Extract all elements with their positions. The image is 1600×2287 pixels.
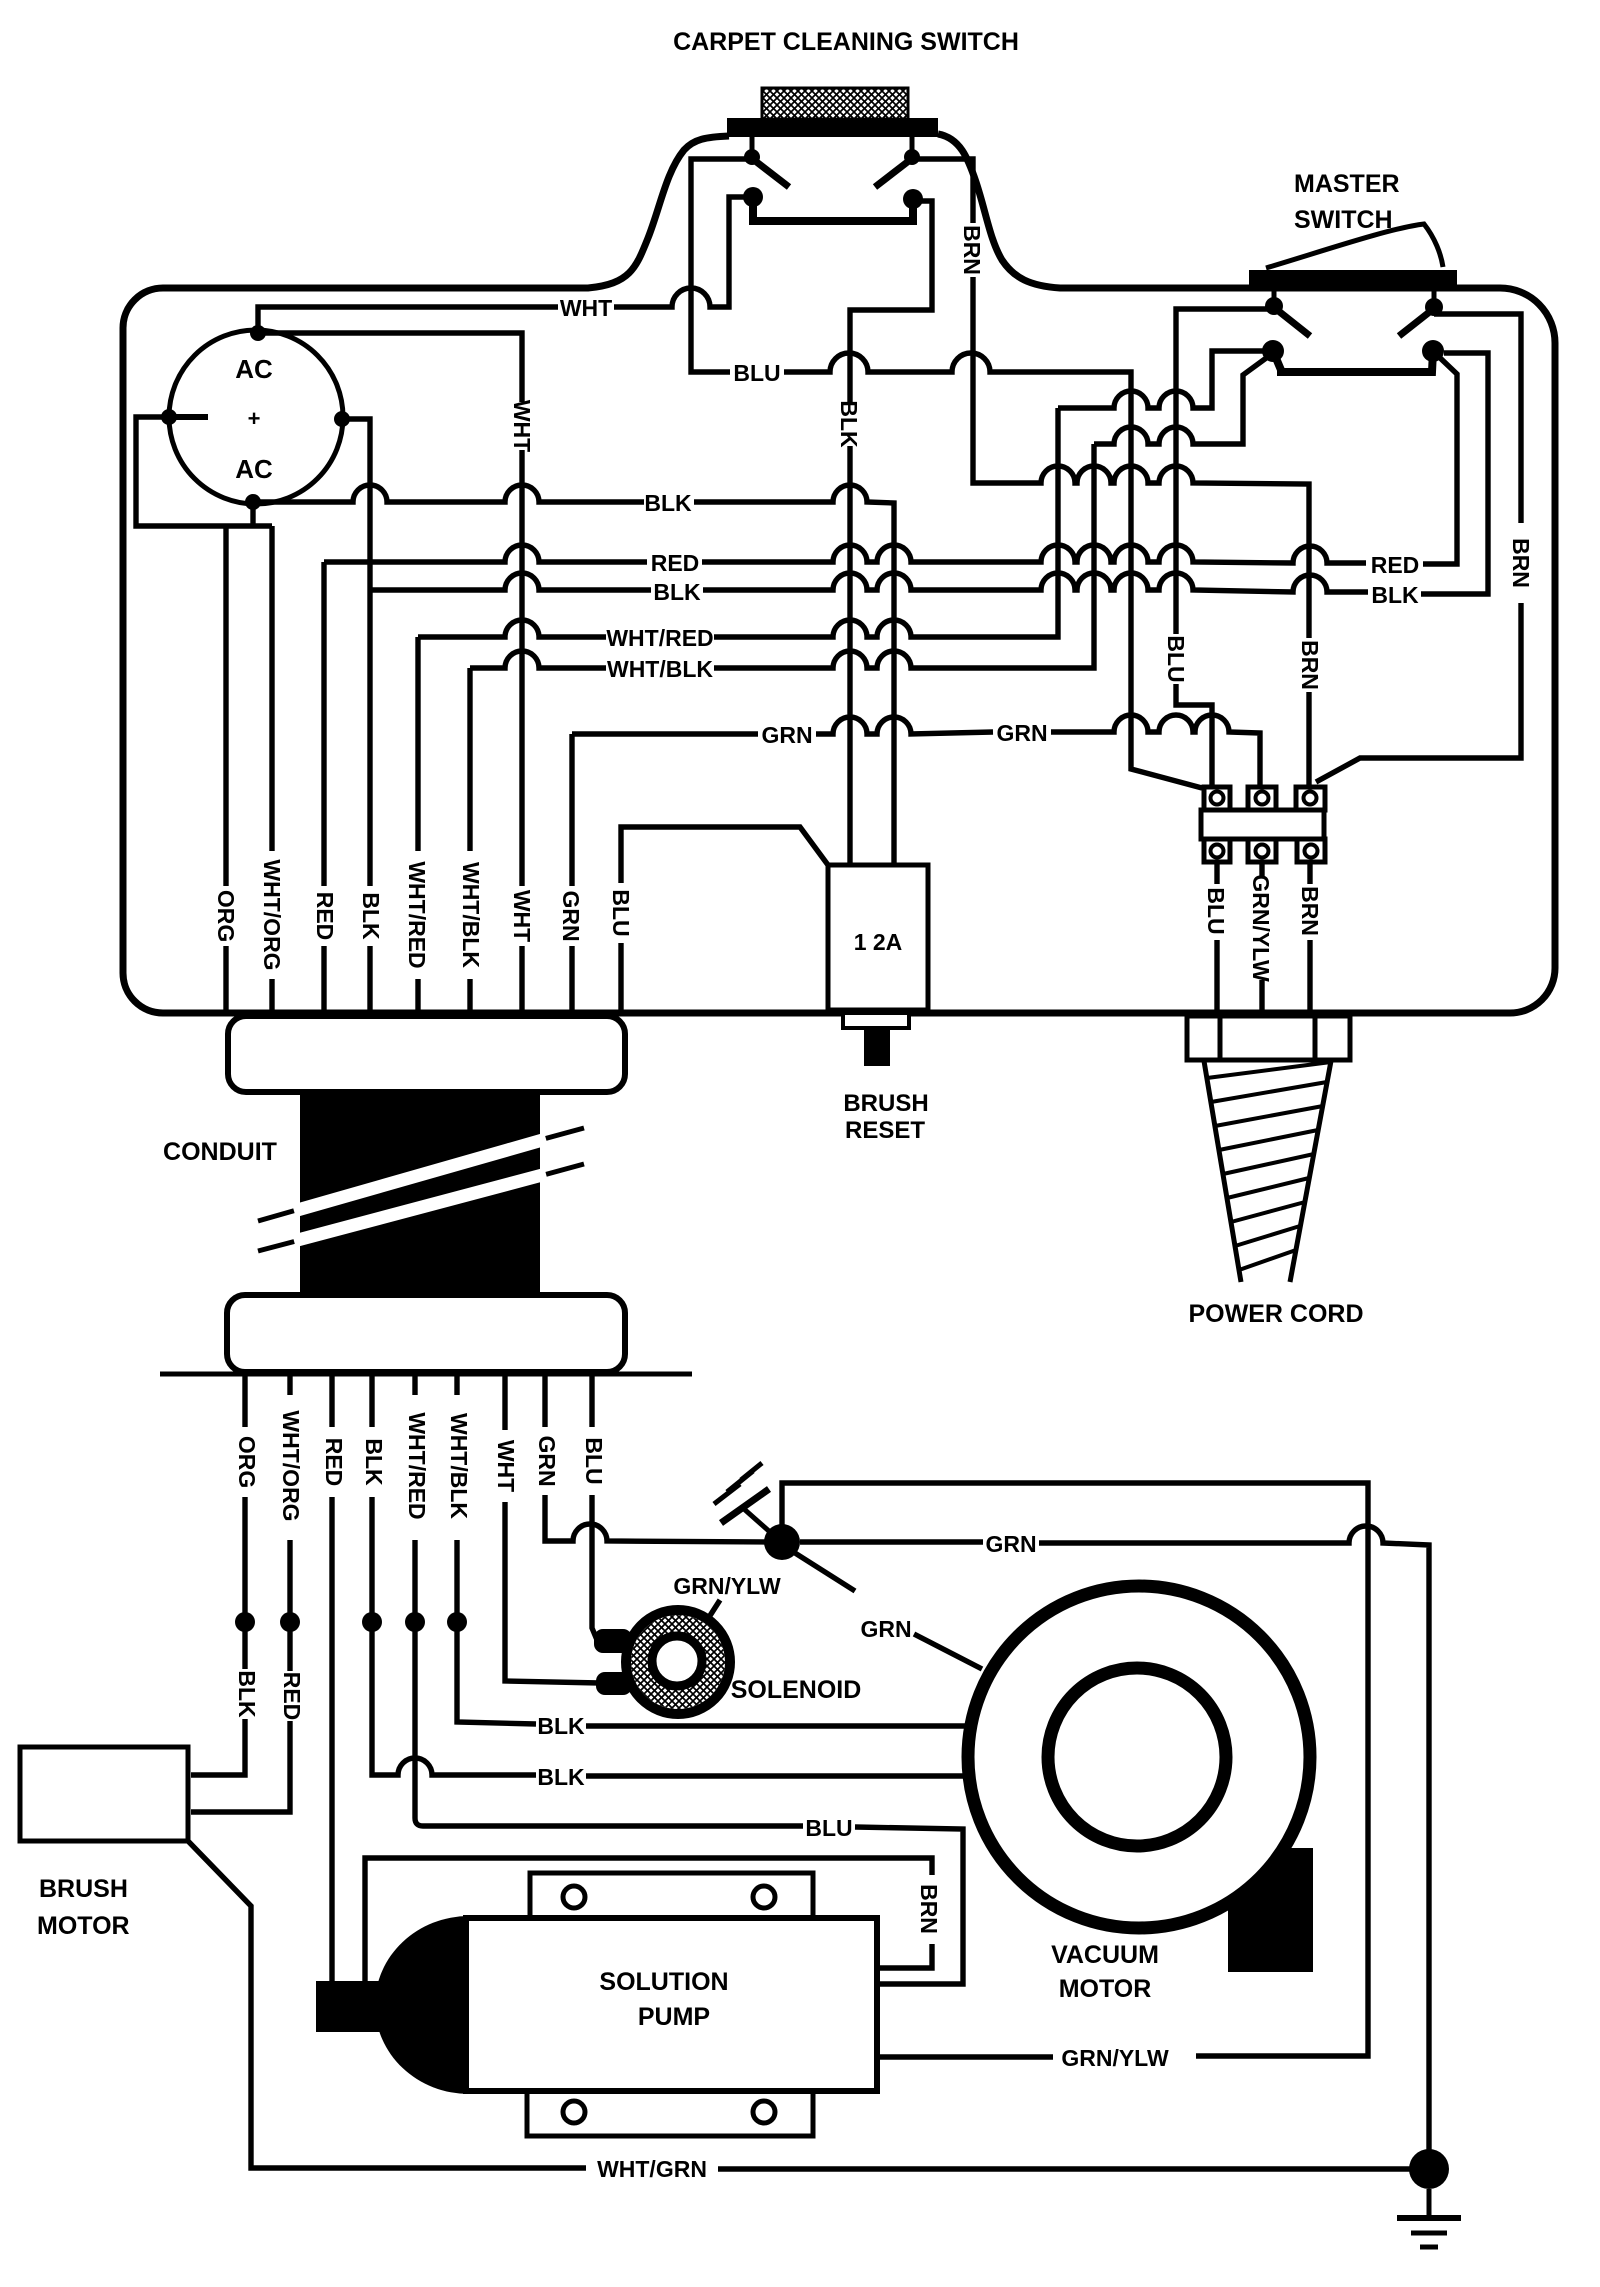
wire BRN from carpet switch top-right to terminal block (912, 159, 973, 223)
carpet switch contact dot top-left (744, 149, 760, 165)
svg-text:BLU: BLU (1203, 887, 1229, 934)
vacuum motor foot (1228, 1848, 1313, 1972)
base plate line (160, 1372, 692, 1377)
svg-text:WHT: WHT (509, 400, 535, 452)
svg-text:PUMP: PUMP (638, 2003, 710, 2031)
terminal block body (1201, 810, 1324, 839)
solenoid coil (631, 1615, 725, 1709)
wire BLU vertical with fuse feed (621, 827, 828, 883)
wire ORG bracket from AC left (136, 417, 272, 526)
carpet switch lever right (875, 160, 910, 187)
wire master left-bottom to nest row 1 (1058, 351, 1273, 408)
solenoid terminal stub bottom (596, 1672, 632, 1695)
svg-text:WHT/BLK: WHT/BLK (458, 862, 484, 968)
wire WHT/GRN from brush motor (188, 1841, 586, 2168)
brush motor box (20, 1747, 188, 1841)
power cord strain relief (1187, 1016, 1350, 1060)
svg-text:BLK: BLK (537, 1713, 585, 1739)
AC terminal dot top (250, 325, 266, 341)
svg-text:BRN: BRN (1508, 538, 1534, 588)
svg-text:GRN/YLW: GRN/YLW (673, 1573, 781, 1599)
svg-text:MOTOR: MOTOR (37, 1912, 130, 1940)
vacuum motor inner circle (1048, 1668, 1226, 1846)
svg-text:RESET: RESET (845, 1117, 925, 1144)
wire WHT/ORG lower (287, 1374, 292, 1395)
carpet cleaning switch body bar (727, 118, 938, 137)
wire BLU lower to solenoid (589, 1374, 594, 1427)
wire WHT/RED row (418, 620, 606, 637)
wire WHT/RED vertical (415, 637, 420, 851)
solution pump bottom bracket (527, 2091, 813, 2136)
svg-text:AC: AC (235, 354, 273, 384)
solution pump body (466, 1918, 877, 2091)
master switch contact dot bottom-right (1422, 340, 1444, 362)
conduit body (300, 1092, 540, 1295)
svg-text:BLU: BLU (581, 1437, 607, 1484)
carpet switch lever left (754, 160, 789, 187)
svg-text:RED: RED (1371, 552, 1420, 578)
svg-text:RED: RED (321, 1438, 347, 1487)
wire RED row (324, 545, 647, 562)
svg-text:WHT: WHT (560, 295, 612, 321)
svg-text:BRN: BRN (959, 225, 985, 275)
svg-text:BRN: BRN (916, 1884, 942, 1934)
svg-text:VACUUM: VACUUM (1051, 1941, 1159, 1969)
svg-text:GRN/YLW: GRN/YLW (1061, 2045, 1169, 2071)
carpet switch pole stubs (752, 137, 912, 152)
svg-text:BLU: BLU (805, 1815, 852, 1841)
AC terminal dot left (161, 409, 177, 425)
wire WHT/ORG vertical (269, 526, 274, 851)
svg-text:GRN: GRN (996, 720, 1047, 746)
terminal screw 2 top (1248, 787, 1276, 810)
svg-text:WHT/GRN: WHT/GRN (597, 2156, 707, 2182)
wire GRN lower to ground junction (542, 1374, 547, 1427)
svg-text:GRN: GRN (761, 722, 812, 748)
carpet switch common bar (753, 197, 913, 221)
brush reset button stem (864, 1028, 890, 1066)
svg-text:GRN: GRN (558, 890, 584, 941)
svg-text:WHT: WHT (493, 1440, 519, 1492)
AC terminal dot right (334, 411, 350, 427)
svg-text:WHT/RED: WHT/RED (404, 1412, 430, 1519)
svg-text:GRN/YLW: GRN/YLW (1248, 874, 1274, 982)
carpet switch contact dot top-right (904, 149, 920, 165)
earth ground symbol (1427, 2189, 1432, 2215)
svg-text:WHT/ORG: WHT/ORG (278, 1410, 304, 1521)
wire GRN row (572, 731, 758, 736)
wire WHT/BLK row (470, 651, 606, 668)
svg-text:ORG: ORG (234, 1436, 260, 1488)
ground junction dot (764, 1524, 800, 1560)
svg-text:BLK: BLK (358, 892, 384, 940)
svg-text:POWER CORD: POWER CORD (1189, 1300, 1364, 1328)
wire RED vertical (321, 562, 326, 886)
svg-text:BLK: BLK (234, 1670, 260, 1718)
svg-text:WHT/ORG: WHT/ORG (259, 859, 285, 970)
fuse 12A circuit breaker (828, 865, 928, 1010)
svg-text:AC: AC (235, 454, 273, 484)
wire BLU below terminal block (1214, 862, 1219, 884)
wire BLK to brush motor (242, 1631, 247, 1669)
wire BLK row from AC bottom to fuse (253, 485, 644, 502)
conduit upper flange (228, 1016, 625, 1092)
splice dot BLK (362, 1612, 382, 1632)
svg-text:BRN: BRN (1297, 886, 1323, 936)
wire master left-bottom to nest row 2 (1094, 353, 1273, 444)
svg-text:1 2A: 1 2A (854, 929, 903, 955)
master switch contact dot top-right (1425, 298, 1443, 316)
wire GRN vertical (569, 734, 574, 886)
wire GRN loop over to pump (GRN/YLW) (782, 1483, 1368, 2056)
AC terminal dot bottom (245, 494, 261, 510)
svg-text:BLK: BLK (836, 400, 862, 448)
solution pump terminal stub (316, 1981, 380, 2032)
wire BLK row to vacuum motor (upper) (457, 1631, 536, 1724)
master switch common bar (1273, 351, 1433, 372)
svg-text:SOLUTION: SOLUTION (599, 1968, 728, 1996)
svg-text:SOLENOID: SOLENOID (731, 1676, 862, 1704)
wire WHT/BLK vertical (467, 668, 472, 851)
splice dot WHT/RED (405, 1612, 425, 1632)
wire RED lower to pump (329, 1374, 334, 1427)
master switch lever left (1276, 309, 1310, 336)
wire BLK from carpet switch bottom-right to fuse (850, 201, 932, 402)
svg-text:BLU: BLU (1163, 635, 1189, 682)
splice dot ORG (235, 1612, 255, 1632)
wire BRN below terminal block (1307, 862, 1312, 884)
wire WHT lower to solenoid (502, 1374, 507, 1430)
wire BLK vertical from AC right (342, 419, 370, 886)
master switch pole stubs (1274, 291, 1434, 300)
wire master right-top down (BRN right side) to terminal screw 3 (1434, 314, 1521, 523)
wire BLK row second (370, 573, 651, 590)
master switch contact dot top-left (1265, 297, 1283, 315)
solenoid terminal stub top (594, 1629, 632, 1653)
svg-text:BLU: BLU (608, 889, 634, 936)
terminal screw 1 top (1204, 787, 1230, 810)
solution pump top bracket (530, 1873, 813, 1918)
svg-text:WHT/BLK: WHT/BLK (446, 1413, 472, 1519)
power cord cone (1204, 1061, 1331, 1282)
chassis ground symbol (744, 1509, 770, 1532)
carpet switch contact dot bottom-right (903, 189, 923, 209)
svg-text:BLK: BLK (361, 1438, 387, 1486)
wire BLU row: carpet switch top-left down and right (691, 159, 752, 372)
svg-text:GRN: GRN (985, 1531, 1036, 1557)
svg-text:SWITCH: SWITCH (1294, 206, 1393, 234)
svg-text:BRUSH: BRUSH (39, 1875, 128, 1903)
svg-text:WHT/RED: WHT/RED (606, 625, 713, 651)
splice dot WHT/ORG (280, 1612, 300, 1632)
wire GRN/YLW below terminal block (1259, 862, 1264, 878)
master switch rocker (1266, 224, 1443, 268)
svg-text:BLK: BLK (1371, 582, 1419, 608)
svg-text:MASTER: MASTER (1294, 170, 1400, 198)
terminal screw 3 top (1296, 787, 1325, 810)
master switch body bar (1249, 270, 1457, 291)
AC source internal stub (169, 414, 208, 420)
svg-text:BRUSH: BRUSH (843, 1090, 928, 1117)
svg-text:ORG: ORG (213, 890, 239, 942)
wire WHT/RED lower (412, 1374, 417, 1395)
conduit break lines (outside black) (258, 1128, 584, 1251)
svg-text:WHT/BLK: WHT/BLK (607, 656, 713, 682)
svg-text:WHT: WHT (509, 890, 535, 942)
terminal screw 2 bottom (1248, 839, 1276, 862)
wire ORG lower (242, 1374, 247, 1427)
svg-text:BRN: BRN (1297, 640, 1323, 690)
wire RED to brush motor (287, 1631, 292, 1671)
svg-text:BLU: BLU (733, 360, 780, 386)
svg-text:GRN: GRN (860, 1616, 911, 1642)
wire WHT row: AC top to carpet switch (258, 307, 558, 333)
AC source circle (169, 330, 343, 504)
terminal screw 3 bottom (1297, 839, 1325, 862)
svg-text:RED: RED (312, 892, 338, 941)
vacuum motor outer circle (968, 1586, 1310, 1928)
wire WHT/BLK lower (454, 1374, 459, 1395)
svg-text:BLK: BLK (537, 1764, 585, 1790)
svg-text:BLK: BLK (644, 490, 692, 516)
svg-text:+: + (248, 406, 261, 431)
svg-text:CONDUIT: CONDUIT (163, 1138, 277, 1166)
carpet cleaning switch button (hatched) (762, 88, 908, 119)
wire ORG vertical (223, 526, 228, 886)
master switch contact dot bottom-left (1262, 340, 1284, 362)
fuse neck (843, 1013, 909, 1028)
enclosure outline (control box) (123, 134, 1555, 1013)
wire WHT vertical from AC top (265, 333, 522, 402)
wire GRN/YLW pointer from junction (795, 1553, 855, 1591)
wire BLK row to vacuum motor (lower) (372, 1631, 536, 1775)
master switch lever right (1399, 310, 1432, 336)
svg-text:CARPET CLEANING SWITCH: CARPET CLEANING SWITCH (673, 28, 1019, 56)
conduit lower flange (227, 1295, 625, 1372)
conduit break stripes (294, 1139, 546, 1241)
svg-text:BLK: BLK (653, 579, 701, 605)
carpet switch contact dot bottom-left (743, 187, 763, 207)
svg-text:GRN: GRN (534, 1435, 560, 1486)
svg-text:MOTOR: MOTOR (1059, 1975, 1152, 2003)
wire BLK lower (369, 1374, 374, 1427)
svg-text:RED: RED (651, 550, 700, 576)
svg-text:RED: RED (279, 1672, 305, 1721)
wire BRN jumper around pump (365, 1858, 932, 1983)
svg-text:WHT/RED: WHT/RED (404, 861, 430, 968)
wire master left-top down (BLU) to terminal screw 1 (1176, 309, 1274, 634)
solution pump nose (375, 1916, 469, 2094)
wire GRN row to ground (800, 1539, 983, 1544)
terminal screw 1 bottom (1204, 839, 1230, 862)
wire BLU loop to pump right side (415, 1631, 803, 1826)
splice dot WHT/BLK (447, 1612, 467, 1632)
ground dot bottom right (1409, 2149, 1449, 2189)
